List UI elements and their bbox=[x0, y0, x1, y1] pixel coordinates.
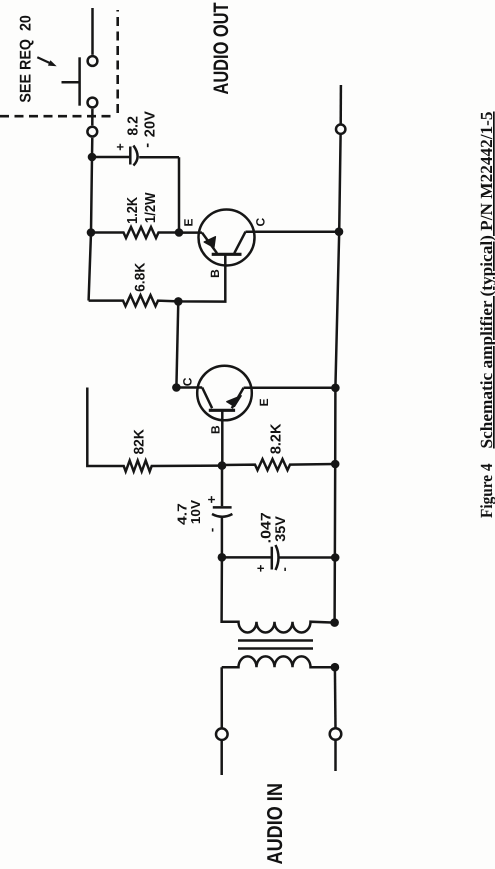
svg-text:+: + bbox=[204, 495, 219, 503]
svg-text:-: - bbox=[277, 567, 292, 571]
svg-text:+: + bbox=[113, 143, 128, 151]
svg-text:20V: 20V bbox=[143, 111, 159, 137]
svg-text:AUDIO IN: AUDIO IN bbox=[263, 783, 287, 864]
svg-text:B: B bbox=[208, 425, 222, 434]
svg-text:Figure 4: Figure 4 bbox=[477, 463, 495, 518]
svg-text:1/2W: 1/2W bbox=[143, 192, 159, 223]
svg-text:8.2: 8.2 bbox=[126, 116, 142, 136]
svg-text:10V: 10V bbox=[188, 500, 203, 524]
svg-text:6.8K: 6.8K bbox=[132, 263, 148, 292]
svg-text:AUDIO OUT: AUDIO OUT bbox=[210, 2, 233, 94]
svg-text:C: C bbox=[253, 218, 267, 227]
svg-text:E: E bbox=[181, 218, 195, 226]
svg-text:-: - bbox=[140, 143, 156, 148]
svg-text:-: - bbox=[204, 528, 219, 532]
svg-text:C: C bbox=[180, 377, 194, 386]
svg-text:35V: 35V bbox=[272, 515, 288, 541]
svg-text:B: B bbox=[208, 269, 222, 278]
svg-text:1.2K: 1.2K bbox=[125, 196, 141, 223]
svg-text:+: + bbox=[253, 564, 268, 572]
svg-text:8.2K: 8.2K bbox=[269, 423, 285, 454]
svg-text:SEE REQ 20: SEE REQ 20 bbox=[18, 15, 35, 103]
svg-text:E: E bbox=[257, 398, 271, 406]
svg-text:.047: .047 bbox=[257, 512, 273, 543]
svg-text:Schematic amplifier (typical): Schematic amplifier (typical) P/N M22442… bbox=[477, 112, 495, 449]
svg-text:82K: 82K bbox=[131, 429, 147, 454]
